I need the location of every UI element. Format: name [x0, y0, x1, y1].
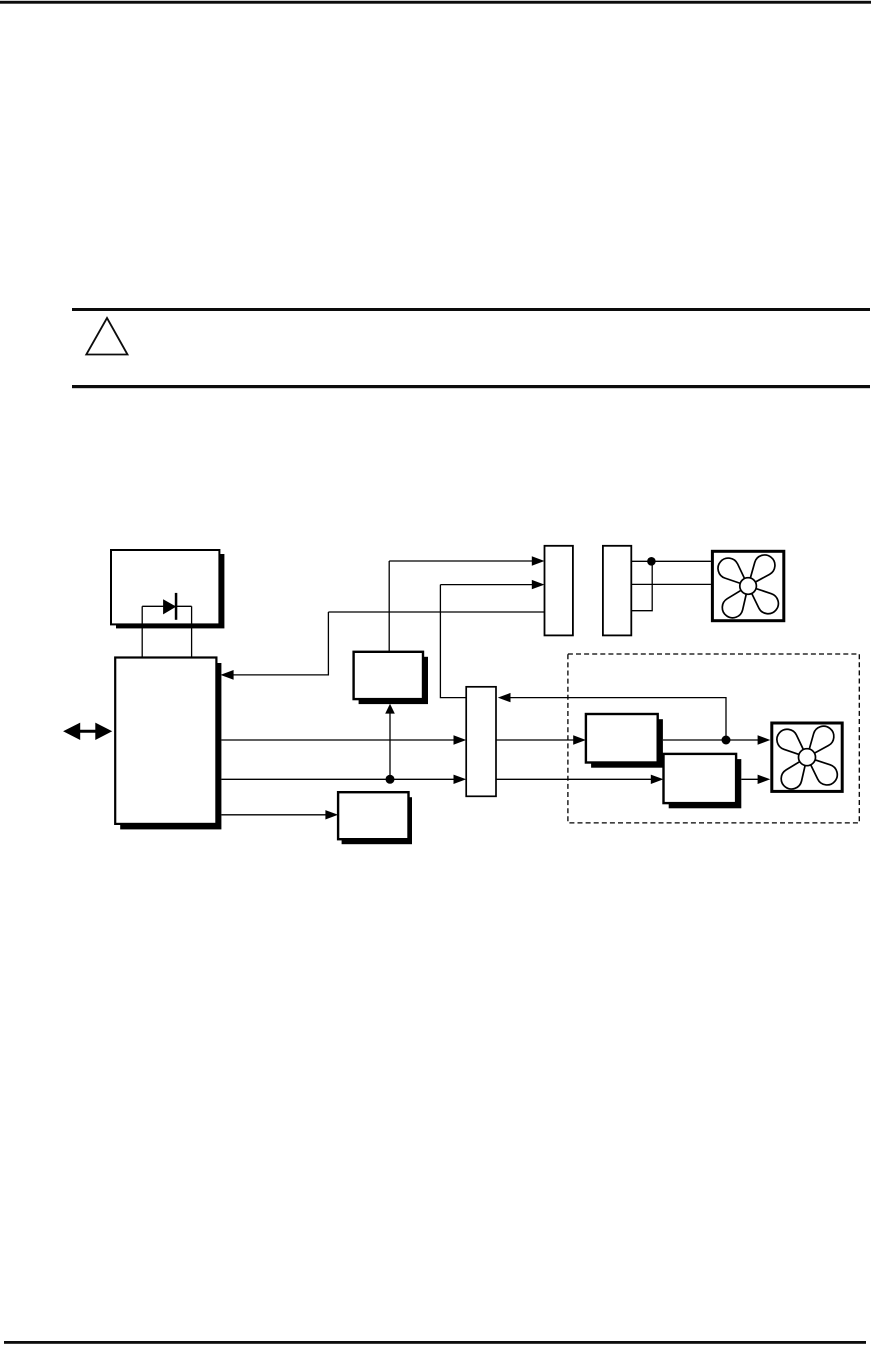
- arrowhead into B6: [651, 775, 664, 784]
- arrowhead into box A lower: [532, 580, 545, 589]
- wire into B2 right (vertical from node): [233, 612, 329, 675]
- block B6 shadow: [669, 759, 742, 808]
- wire B2 to box C (y=779.3): [221, 778, 455, 780]
- arrowhead into box C right: [498, 693, 511, 702]
- diode D1: [163, 593, 177, 620]
- block B1 shadow: [116, 554, 224, 628]
- junction J3: [722, 736, 731, 745]
- wire B2 to box C (y=740): [221, 739, 455, 741]
- main block B2: [115, 658, 216, 824]
- block B5: [586, 714, 658, 763]
- arrowhead up into B3: [385, 704, 395, 714]
- caution box bottom rule: [72, 385, 870, 388]
- wire B2 to bottom block (y=814.8): [221, 814, 327, 816]
- wire B5 to fan2 (y=740): [663, 739, 759, 741]
- block B6: [664, 754, 737, 803]
- wire J2 up to B3: [389, 713, 391, 780]
- caution box top rule: [72, 308, 870, 311]
- wire diode loop right leg: [191, 606, 193, 657]
- block B5 shadow: [591, 719, 663, 768]
- bottom block B4 shadow: [342, 797, 412, 844]
- wire vertical x=440: [440, 585, 466, 698]
- connector box A: [545, 546, 573, 636]
- wire diode loop top: [142, 605, 191, 607]
- fan F2: [772, 722, 842, 793]
- arrowhead into bottom block: [325, 810, 338, 819]
- wire box C to block B6 (y=779.3): [496, 778, 652, 780]
- arrowhead into fan2 (y=779.3): [758, 775, 771, 784]
- double-headed arrow: [63, 723, 112, 740]
- arrowhead into box C (y=779.3): [454, 775, 467, 784]
- middle block B3 shadow: [359, 657, 428, 704]
- middle block B3: [354, 652, 423, 699]
- wire return into box C right (y=697.6): [510, 698, 727, 740]
- wire to box A (y=584.6): [440, 584, 533, 586]
- junction J1: [647, 557, 656, 566]
- arrowhead into B5: [573, 735, 586, 744]
- arrowhead into box A top: [532, 556, 545, 565]
- main block B2 shadow: [120, 663, 221, 829]
- connector box B: [603, 546, 631, 636]
- arrowhead into box C (y=740): [454, 735, 467, 744]
- dashed enclosure: [568, 654, 859, 823]
- bottom block B4: [338, 792, 408, 839]
- connector box C: [466, 687, 496, 797]
- wire vertical to middle block: [388, 561, 390, 652]
- block B1 (top-left): [111, 550, 219, 624]
- arrowhead into fan2 (y=740): [758, 735, 771, 744]
- wire node to box A (y=612): [328, 611, 544, 613]
- wire box B to fan1 (y=584.4): [631, 583, 711, 585]
- wire to box A (y=561): [389, 560, 533, 562]
- wire B6 to fan2 (y=779.3): [741, 778, 759, 780]
- wire box C to block B5 (y=740): [496, 739, 575, 741]
- warning triangle: [86, 318, 127, 355]
- bottom footer rule: [4, 1341, 866, 1344]
- wire diode loop left leg: [141, 606, 143, 657]
- wire box B to fan1 (y=561.3): [631, 560, 711, 562]
- junction J2: [386, 775, 395, 784]
- arrowhead into B2 right side: [220, 670, 233, 680]
- top header rule: [0, 1, 871, 4]
- fan F1: [712, 551, 783, 622]
- wire stub box B (y=610.7): [631, 561, 652, 610]
